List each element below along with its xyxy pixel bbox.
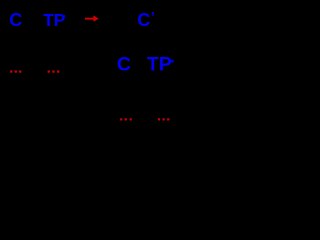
- ellipsis under right C: [120, 118, 132, 120]
- svg-text:C: C: [117, 54, 131, 76]
- subscript mark after right TP: [171, 60, 174, 63]
- ellipsis under left C: [10, 70, 21, 72]
- svg-text:TP: TP: [43, 10, 65, 30]
- subscript mark after left TP: [63, 15, 65, 18]
- svg-text:C: C: [9, 10, 22, 30]
- svg-text:C: C: [137, 10, 150, 30]
- ellipsis under left TP: [48, 70, 60, 72]
- svg-text:TP: TP: [147, 54, 172, 76]
- svg-text:’: ’: [151, 9, 155, 24]
- ellipsis under right TP: [158, 118, 169, 120]
- arrow (red, left to right): [85, 15, 99, 21]
